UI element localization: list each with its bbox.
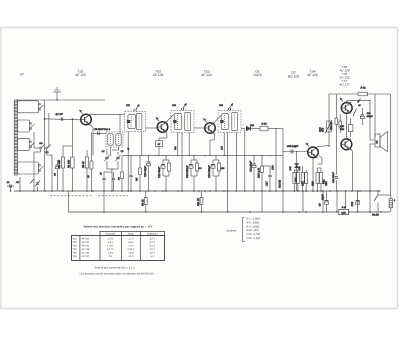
svg-text:8,2 V: 8,2 V <box>150 244 156 247</box>
svg-text:4,5 V: 4,5 V <box>150 252 156 255</box>
svg-text:TS4: TS4 <box>73 248 78 251</box>
svg-text:3,1 V: 3,1 V <box>128 255 134 258</box>
svg-text:AF 126: AF 126 <box>306 73 318 77</box>
svg-text:C24: C24 <box>325 181 328 186</box>
svg-text:1,8 V: 1,8 V <box>128 252 134 255</box>
svg-text:PO: PO <box>16 181 19 184</box>
svg-text:R16 5k: R16 5k <box>279 179 282 188</box>
svg-text:TS2: TS2 <box>73 241 78 244</box>
svg-text:0,35 V: 0,35 V <box>128 248 135 251</box>
svg-text:C26: C26 <box>351 201 354 206</box>
svg-text:R 8 : 680Ω: R 8 : 680Ω <box>247 221 260 224</box>
svg-text:C15 100nF: C15 100nF <box>208 165 211 178</box>
svg-text:OA79: OA79 <box>253 73 262 77</box>
svg-text:1,8 V: 1,8 V <box>108 252 114 255</box>
svg-text:Tension aux bornes de R16 = 3,: Tension aux bornes de R16 = 3,1 V <box>94 266 135 269</box>
svg-text:TS5: TS5 <box>73 252 78 255</box>
svg-text:C21: C21 <box>295 177 298 182</box>
svg-text:Emetteur: Emetteur <box>106 233 116 236</box>
svg-text:C13 100nF: C13 100nF <box>186 165 189 178</box>
svg-text:C15 : 0,1μF: C15 : 0,1μF <box>247 237 261 240</box>
svg-text:R12 : 1kΩ: R12 : 1kΩ <box>247 229 259 232</box>
svg-text:C9 10nF Osc 1: C9 10nF Osc 1 <box>94 128 111 131</box>
svg-text:C20 0,5μF: C20 0,5μF <box>287 145 299 148</box>
svg-text:AC 137: AC 137 <box>338 82 349 86</box>
svg-text:0,17 V: 0,17 V <box>107 248 114 251</box>
svg-text:R 31: R 31 <box>360 87 366 90</box>
svg-text:TS3: TS3 <box>73 244 78 247</box>
svg-text:AC 137: AC 137 <box>82 255 90 258</box>
svg-text:AC 132: AC 132 <box>82 252 90 255</box>
svg-text:TS1: TS1 <box>73 237 78 240</box>
svg-text:0,5A: 0,5A <box>341 212 346 215</box>
svg-text:AF 126: AF 126 <box>82 241 90 244</box>
svg-text:R6 1k: R6 1k <box>142 199 145 206</box>
svg-text:R 2 : 1,8kΩ: R 2 : 1,8kΩ <box>247 218 260 221</box>
svg-text:Ces tensions ont été mesurées: Ces tensions ont été mesurées avec un vo… <box>80 272 155 275</box>
svg-text:R2 10k: R2 10k <box>68 159 71 168</box>
svg-text:C18: C18 <box>272 165 275 170</box>
svg-text:Collecteur: Collecteur <box>147 233 158 236</box>
svg-text:C12 40nF: C12 40nF <box>158 167 161 178</box>
svg-text:8,2 V: 8,2 V <box>150 241 156 244</box>
svg-text:PO: PO <box>45 151 48 154</box>
svg-text:GO: GO <box>39 142 43 145</box>
svg-text:1,6 V: 1,6 V <box>128 244 134 247</box>
svg-text:R26 1k: R26 1k <box>330 121 333 130</box>
svg-text:1,40 V: 1,40 V <box>107 244 114 247</box>
svg-text:25μF: 25μF <box>322 194 325 201</box>
svg-text:BO 100: BO 100 <box>288 74 299 78</box>
svg-text:C17: C17 <box>266 181 269 186</box>
svg-text:8,2 V: 8,2 V <box>150 237 156 240</box>
svg-text:Variante: Variante <box>226 229 236 232</box>
svg-text:R 12: R 12 <box>261 123 267 126</box>
svg-text:TS6: TS6 <box>73 255 78 258</box>
svg-text:AF 126: AF 126 <box>200 73 212 77</box>
svg-text:0,8 V: 0,8 V <box>128 241 134 244</box>
svg-text:R18: R18 <box>302 181 305 186</box>
svg-text:C15 : 4,7nF: C15 : 4,7nF <box>247 233 261 236</box>
svg-text:Ra 55: Ra 55 <box>372 214 379 217</box>
svg-text:Base: Base <box>128 233 134 236</box>
svg-text:Relevé des tensions mesurées p: Relevé des tensions mesurées par rapport… <box>84 224 153 228</box>
svg-text:C10 40μF: C10 40μF <box>144 166 147 177</box>
svg-text:3Ω: 3Ω <box>376 140 379 143</box>
svg-text:9 V: 9 V <box>109 255 113 258</box>
svg-text:R3 4k: R3 4k <box>82 161 85 168</box>
svg-text:1,1 V: 1,1 V <box>128 237 134 240</box>
svg-text:0,6 V: 0,6 V <box>108 241 114 244</box>
svg-text:4,5 V: 4,5 V <box>150 248 156 251</box>
svg-text:AF 125: AF 125 <box>82 237 90 240</box>
svg-text:AF 126: AF 126 <box>152 73 164 77</box>
svg-text:C23: C23 <box>312 181 315 186</box>
svg-text:C11: C11 <box>174 146 177 150</box>
svg-text:0,7 nF: 0,7 nF <box>55 113 63 116</box>
svg-text:C25 100nF: C25 100nF <box>332 172 335 183</box>
svg-text:AC 126: AC 126 <box>82 248 90 251</box>
svg-text:C16 40μF: C16 40μF <box>250 161 253 172</box>
svg-text:R11 1k: R11 1k <box>197 198 200 206</box>
svg-text:AF 125: AF 125 <box>74 73 86 77</box>
svg-text:1,17V: 1,17V <box>107 237 113 240</box>
svg-text:9 V: 9 V <box>151 255 155 258</box>
svg-text:AF 126: AF 126 <box>82 244 90 247</box>
svg-text:R 9 : 82kΩ: R 9 : 82kΩ <box>247 225 260 228</box>
svg-text:R15 4,7k: R15 4,7k <box>258 167 261 178</box>
